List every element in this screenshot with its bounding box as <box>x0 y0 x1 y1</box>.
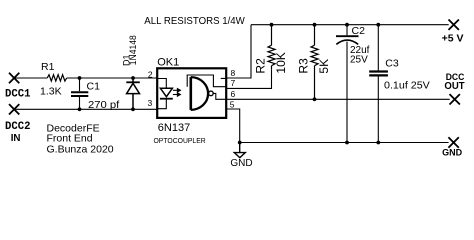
svg-text:5K: 5K <box>317 59 331 74</box>
svg-text:7: 7 <box>231 78 236 88</box>
node C1 top junction <box>78 76 82 80</box>
node C1 bottom junction <box>78 107 82 111</box>
resistor R1 <box>47 75 66 81</box>
capacitor C3 <box>369 72 388 76</box>
wire gate vcc/enable inside <box>187 75 226 87</box>
svg-text:R3: R3 <box>297 58 311 74</box>
wire pin8 to +5V rail <box>227 25 251 78</box>
node R2 top junction <box>270 23 274 27</box>
wire ground rail <box>240 142 449 144</box>
svg-text:6: 6 <box>231 89 236 99</box>
svg-text:+5 V: +5 V <box>442 33 464 45</box>
wire C3 lower riser <box>377 77 379 143</box>
wire C1 top stub <box>79 78 81 91</box>
capacitor C2 polarized <box>346 25 348 36</box>
wire +5V top rail <box>251 24 449 26</box>
node C3 bottom junction <box>376 141 380 145</box>
svg-text:OK1: OK1 <box>157 56 179 68</box>
svg-text:8: 8 <box>231 68 236 78</box>
wire DCC1 line left of R1 <box>14 77 47 79</box>
op-amp U1 optocoupler OK1 box <box>157 68 226 118</box>
port X DCC OUT <box>450 94 460 104</box>
svg-text:GND: GND <box>442 148 462 159</box>
svg-text:R2: R2 <box>254 58 268 74</box>
svg-text:OPTOCOUPLER: OPTOCOUPLER <box>154 136 207 145</box>
svg-text:2: 2 <box>148 69 153 79</box>
svg-text:R1: R1 <box>41 61 55 73</box>
resistor R3 <box>311 25 318 100</box>
capacitor C1 <box>71 92 88 96</box>
node D1 top junction <box>131 76 135 80</box>
svg-text:DCC1: DCC1 <box>5 89 30 101</box>
svg-text:ALL RESISTORS 1/4W: ALL RESISTORS 1/4W <box>144 15 245 27</box>
svg-text:6N137: 6N137 <box>158 122 190 134</box>
svg-text:C1: C1 <box>87 80 101 92</box>
node C2 top junction <box>345 23 349 27</box>
wire DCC1 line R1 to OK1 pin2 <box>67 77 157 79</box>
svg-text:3: 3 <box>147 98 152 108</box>
svg-text:25V: 25V <box>350 55 368 66</box>
diode D1 <box>126 78 140 109</box>
wire pin7 to R2 <box>227 69 272 88</box>
wire pin5 to ground rail <box>227 109 240 143</box>
wire pin6 DCC OUT line <box>227 98 450 100</box>
LED of OK1 <box>160 88 173 98</box>
svg-text:5: 5 <box>230 99 235 109</box>
svg-text:0.1uf 25V: 0.1uf 25V <box>384 81 430 92</box>
wire DCC2 line <box>14 108 156 110</box>
node R3 bottom junction <box>313 97 317 101</box>
svg-text:C3: C3 <box>385 58 399 70</box>
port X GND right <box>448 137 458 147</box>
LED emission arrows <box>173 89 181 97</box>
ground symbol <box>234 143 245 158</box>
wire C1 bottom stub <box>79 97 81 109</box>
wire gate output inside <box>213 93 226 99</box>
node R3 top junction <box>313 23 317 27</box>
wire LED cathode inside <box>158 99 166 109</box>
svg-text:1N4148: 1N4148 <box>128 35 138 65</box>
node C2 bottom junction <box>345 141 349 145</box>
svg-text:DCC2: DCC2 <box>5 121 30 133</box>
svg-text:1.3K: 1.3K <box>40 85 62 97</box>
port X +5V <box>449 20 459 30</box>
node pin5 ground junction <box>238 141 242 145</box>
gate D shape of OK1 <box>190 77 193 110</box>
gate bubble <box>209 91 214 96</box>
svg-text:G.Bunza 2020: G.Bunza 2020 <box>47 144 114 156</box>
svg-text:OUT: OUT <box>444 81 464 92</box>
svg-text:C2: C2 <box>352 25 366 37</box>
svg-text:10K: 10K <box>274 52 288 73</box>
svg-text:GND: GND <box>230 158 252 169</box>
node C3 top junction <box>376 23 380 27</box>
wire C3 riser <box>377 25 379 71</box>
resistor R2 <box>268 25 275 70</box>
port X DCC2 <box>9 104 19 114</box>
port X DCC1 <box>9 73 19 83</box>
wire LED anode inside <box>158 79 166 89</box>
svg-text:IN: IN <box>11 133 21 144</box>
node D1 bottom junction <box>131 107 135 111</box>
